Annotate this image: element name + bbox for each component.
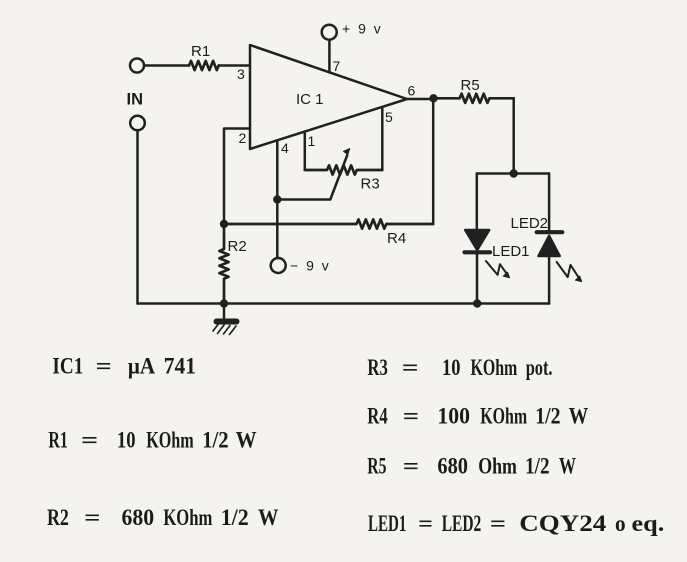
LED1 [465,174,530,304]
caption R5 value [367,454,576,479]
svg-text:3: 3 [237,66,245,82]
wire input to R1 [144,64,189,67]
wire R5 down to LED bracket [510,98,518,177]
potentiometer R3 [305,165,383,192]
svg-text:IC 1: IC 1 [296,91,324,108]
pin 5 wire [382,107,393,170]
node output pin 6 [407,83,438,103]
svg-text:R5: R5 [461,77,480,94]
pin 4 wire [273,140,289,258]
svg-text:− 9 v: − 9 v [290,258,331,274]
terminal +9v [322,21,383,40]
svg-text:5: 5 [385,109,393,125]
wiper arm R3 [277,149,349,200]
caption R2 value [47,505,279,530]
svg-text:LED1: LED1 [492,243,530,260]
op-amp IC1 [250,45,407,149]
svg-text:6: 6 [408,83,416,99]
svg-text:4: 4 [281,140,289,156]
svg-text:LED2: LED2 [511,215,549,232]
svg-text:+ 9 v: + 9 v [342,21,383,37]
resistor R5 [434,77,514,103]
pin 1 wire [305,132,316,171]
LED2 [511,174,563,304]
resistor R2 [219,224,246,308]
pin 2 wire [220,129,250,229]
wire R4 up to node 6 [432,98,435,224]
caption R4 value [367,404,588,429]
svg-text:IN: IN [127,91,144,109]
svg-text:1: 1 [308,133,316,149]
terminal IN [127,91,145,304]
pin 7 [329,40,340,74]
terminal input top [130,59,144,73]
ground [213,304,237,335]
wire bottom rail [138,299,550,307]
terminal -9v [271,258,331,274]
svg-text:R3: R3 [361,176,380,193]
resistor R1 [189,43,219,70]
caption LED value [368,511,664,536]
svg-text:R4: R4 [387,230,406,247]
wire LED top bracket [477,172,549,175]
resistor R4 [224,219,433,247]
caption R3 value [367,355,552,380]
svg-text:R2: R2 [228,238,247,255]
caption R1 value [48,428,256,453]
LED2 emission arrow [557,262,582,282]
LED1 emission arrow [486,261,510,278]
pin 3 label [237,66,245,82]
svg-text:2: 2 [239,130,247,146]
svg-text:R1: R1 [191,43,210,60]
caption IC1 value [52,354,196,379]
svg-text:7: 7 [333,58,341,74]
wire R1 to pin 3 [219,64,251,67]
